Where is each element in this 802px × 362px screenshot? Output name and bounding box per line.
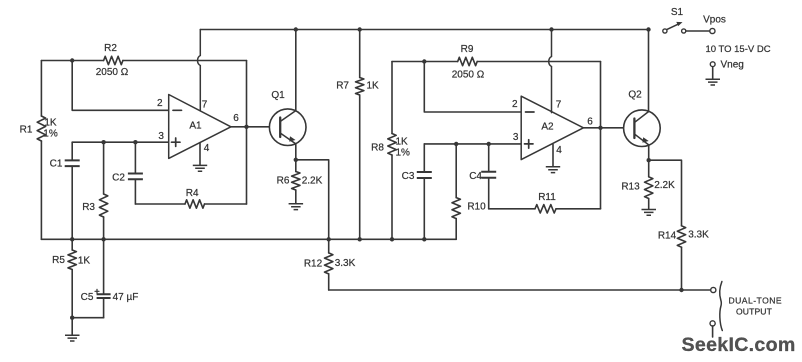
pin 6 label A1	[233, 113, 239, 124]
wire Q2 emitter to R14	[649, 160, 682, 226]
pin 6 label A2	[587, 117, 593, 128]
label R11	[538, 192, 556, 203]
pin 3 label A2	[513, 132, 519, 143]
wire Q1 collector to rail	[295, 30, 297, 111]
label R14 value 3.3K	[688, 230, 709, 241]
label R9	[461, 44, 474, 55]
label Q2	[628, 90, 642, 101]
transistor Q2	[624, 110, 661, 147]
label OUTPUT	[736, 307, 773, 317]
svg-text:R8: R8	[371, 143, 384, 154]
svg-text:R9: R9	[461, 44, 474, 55]
node output bus/R14	[679, 288, 683, 292]
node junction pin3/R10	[454, 142, 458, 146]
capacitor C4	[481, 144, 496, 209]
svg-text:4: 4	[556, 145, 562, 156]
node rail/R7	[358, 27, 362, 31]
svg-text:C3: C3	[402, 171, 415, 182]
wire A1 pin7 to rail with hop over R2 wire	[198, 30, 201, 111]
svg-text:SeekIC.com: SeekIC.com	[682, 334, 796, 356]
svg-text:A2: A2	[541, 121, 554, 132]
label R6 value 2.2K	[302, 176, 323, 187]
svg-text:4: 4	[204, 143, 210, 154]
wire Q2 collector to rail	[648, 30, 650, 112]
node common/C3	[422, 237, 426, 241]
label R2	[104, 43, 117, 54]
label A1	[189, 120, 202, 131]
op-amp A1 plus input sign	[172, 138, 181, 146]
label R10	[467, 201, 486, 212]
label R12 value 3.3K	[335, 258, 356, 269]
node Vneg terminal	[710, 62, 715, 67]
op-amp A1 minus input sign	[173, 109, 182, 111]
resistor R4 feedback	[135, 200, 246, 208]
label Q1	[271, 90, 285, 101]
wire A2 output to Q2 base	[583, 127, 623, 129]
resistor R10	[452, 144, 460, 239]
label R3	[82, 202, 95, 213]
brace dual-tone output	[720, 282, 723, 331]
svg-text:3.3K: 3.3K	[335, 258, 356, 269]
pin 3 label A1	[158, 131, 164, 142]
node rail/Q2 collector and S1 feed	[646, 27, 650, 31]
capacitor C1	[65, 142, 80, 239]
svg-text:C5: C5	[81, 292, 94, 303]
op-amp A1 triangle	[169, 95, 231, 159]
svg-text:R13: R13	[621, 182, 640, 193]
switch S1	[663, 22, 686, 33]
svg-text:Vpos: Vpos	[703, 14, 726, 25]
label R1 tolerance 1%	[43, 129, 58, 140]
resistor R9 (2050 ohm) with feed wire	[392, 57, 601, 65]
label R5	[52, 255, 65, 266]
wire pin2 branch to op-amp A1	[72, 61, 169, 111]
label supply 10 TO 15-V DC	[705, 44, 770, 55]
node A2 output junction	[598, 126, 602, 130]
node Vpos terminal	[710, 28, 715, 33]
svg-text:R4: R4	[186, 188, 199, 199]
node junction pin3/C2	[133, 140, 137, 144]
resistor R7 (1K)	[356, 30, 364, 240]
op-amp A2 plus input sign	[525, 140, 534, 148]
node rail/Q1 collector	[294, 27, 298, 31]
wire Q1 emitter to R12 top	[296, 160, 329, 240]
pin 4 label A2	[556, 145, 562, 156]
ground Vneg	[706, 79, 721, 85]
wire Q2 emitter lead	[648, 145, 650, 160]
resistor R12 (3.3K)	[325, 239, 333, 290]
svg-text:1K: 1K	[44, 117, 57, 128]
label C2	[112, 172, 125, 183]
svg-text:R1: R1	[20, 124, 33, 135]
svg-text:R3: R3	[82, 202, 95, 213]
svg-text:2050 Ω: 2050 Ω	[452, 70, 485, 81]
svg-text:6: 6	[587, 117, 593, 128]
label Vpos	[703, 14, 726, 25]
label R5 value 1K	[78, 256, 91, 267]
svg-text:R14: R14	[658, 231, 677, 242]
label R7 value 1K	[367, 81, 380, 92]
ground R13	[642, 210, 657, 216]
label R9 value 2050 ohm	[452, 70, 485, 81]
node output terminal lower	[710, 321, 715, 326]
wire top supply rail	[200, 29, 648, 31]
svg-text:1%: 1%	[396, 147, 411, 158]
capacitor C5 (47 uF polarized)	[95, 289, 111, 317]
label C5 value 47 uF	[113, 292, 139, 303]
label C3	[402, 171, 415, 182]
resistor R8 (1K 1%) right-stage rail	[388, 62, 396, 240]
svg-text:1K: 1K	[367, 81, 380, 92]
node common/C1-R5	[70, 237, 74, 241]
svg-text:1%: 1%	[43, 129, 58, 140]
svg-text:A1: A1	[189, 120, 202, 131]
pin 7 label A1	[202, 99, 208, 110]
svg-text:1K: 1K	[396, 136, 409, 147]
ground A2 pin4	[546, 167, 560, 173]
label Vneg	[721, 60, 744, 71]
node junction R2/pin2 branch	[70, 58, 74, 62]
svg-text:3.3K: 3.3K	[688, 230, 709, 241]
resistor R6 (2.2K)	[292, 160, 300, 203]
svg-text:R2: R2	[104, 43, 117, 54]
svg-text:7: 7	[202, 99, 208, 110]
transistor Q1	[269, 109, 306, 146]
svg-text:1K: 1K	[78, 256, 91, 267]
svg-text:C1: C1	[50, 158, 63, 169]
svg-text:Vneg: Vneg	[721, 60, 744, 71]
wire A1 output column	[246, 61, 248, 205]
wire common bus	[41, 238, 456, 240]
label R14	[658, 231, 677, 242]
svg-text:R12: R12	[304, 258, 323, 269]
label C4	[469, 171, 482, 182]
svg-text:DUAL-TONE: DUAL-TONE	[729, 296, 783, 306]
node ground junction bottom-left	[70, 316, 74, 320]
wire A2 pin7 to rail with hop over R9 wire	[549, 30, 552, 113]
label R8 value 1K	[396, 136, 409, 147]
wire pin3 input wire of A1	[72, 141, 169, 143]
svg-text:10 TO 15-V DC: 10 TO 15-V DC	[705, 44, 770, 55]
label A2	[541, 121, 554, 132]
label R2 value 2050 ohm	[96, 67, 129, 78]
label R8	[371, 143, 384, 154]
pin 2 label A2	[512, 99, 518, 110]
svg-text:OUTPUT: OUTPUT	[736, 307, 773, 317]
svg-text:2: 2	[157, 98, 163, 109]
wire A2 pin4 to ground	[552, 144, 554, 166]
label R12	[304, 258, 323, 269]
watermark SeekIC.com	[682, 334, 796, 356]
svg-text:S1: S1	[671, 7, 684, 18]
svg-text:3: 3	[158, 131, 164, 142]
node common/R8	[390, 237, 394, 241]
label C5	[81, 292, 94, 303]
wire S1 to Vpos terminal	[686, 30, 710, 32]
wire output bus	[329, 289, 711, 291]
label R13	[621, 182, 640, 193]
pin 2 label A1	[157, 98, 163, 109]
wire pin3 input wire of A2	[424, 143, 521, 145]
resistor R3	[99, 142, 107, 293]
svg-text:R6: R6	[277, 176, 290, 187]
svg-text:2: 2	[512, 99, 518, 110]
wire pin2 branch to op-amp A2	[424, 62, 521, 113]
node output terminal upper	[711, 287, 716, 292]
label R7	[336, 81, 349, 92]
node rail/A2 pin7	[549, 27, 553, 31]
pin 7 label A2	[556, 99, 562, 110]
label R1	[20, 124, 33, 135]
ground R6	[289, 204, 304, 210]
node Q1 emitter junction	[294, 158, 298, 162]
node A1 output junction	[244, 125, 248, 129]
svg-text:7: 7	[556, 99, 562, 110]
wire lower terminal stub	[712, 326, 714, 337]
label R13 value 2.2K	[654, 180, 675, 191]
label R4	[186, 188, 199, 199]
svg-text:R5: R5	[52, 255, 65, 266]
wire A1 pin4 to ground	[199, 143, 201, 165]
ground A1 pin4	[193, 165, 207, 171]
svg-text:2.2K: 2.2K	[654, 180, 675, 191]
svg-text:47 µF: 47 µF	[113, 292, 139, 303]
resistor R11 feedback	[489, 205, 601, 213]
svg-text:R10: R10	[467, 201, 486, 212]
svg-text:Q1: Q1	[271, 90, 285, 101]
label R8 tolerance 1%	[396, 147, 411, 158]
svg-text:2.2K: 2.2K	[302, 176, 323, 187]
node common/R7	[358, 237, 362, 241]
label R6	[277, 176, 290, 187]
svg-text:3: 3	[513, 132, 519, 143]
node left rail / resistor R1 (1K 1%)	[37, 61, 45, 240]
capacitor C3	[417, 144, 432, 239]
op-amp A2 triangle	[521, 96, 583, 159]
svg-text:6: 6	[233, 113, 239, 124]
wire C5 bottom to R5 bottom	[72, 317, 103, 319]
resistor R14 (3.3K)	[677, 226, 685, 290]
resistor R5 (1K)	[68, 239, 76, 317]
node common/R3-C5	[101, 237, 105, 241]
label C1	[50, 158, 63, 169]
svg-text:C4: C4	[469, 171, 482, 182]
node junction pin3/C4	[487, 142, 491, 146]
wire A1 output to Q1 base	[231, 126, 270, 128]
resistor R13 (2.2K)	[645, 160, 653, 209]
resistor R2 (2050 ohm) with feed wire	[41, 56, 246, 64]
svg-text:Q2: Q2	[628, 90, 642, 101]
capacitor C2	[128, 142, 143, 204]
wire A2 output column	[600, 62, 602, 209]
wire to bottom-left ground	[71, 318, 73, 335]
node common/R12	[327, 237, 331, 241]
svg-text:C2: C2	[112, 172, 125, 183]
wire Vneg to ground	[712, 67, 714, 79]
node junction R9/pin2 branch	[422, 59, 426, 63]
wire Q1 emitter lead	[295, 144, 297, 160]
pin 4 label A1	[204, 143, 210, 154]
svg-text:R7: R7	[336, 81, 349, 92]
label R1 value 1K	[44, 117, 57, 128]
label S1	[671, 7, 684, 18]
svg-text:R11: R11	[538, 192, 556, 203]
svg-text:2050 Ω: 2050 Ω	[96, 67, 129, 78]
label DUAL-TONE	[729, 296, 783, 306]
op-amp A2 minus input sign	[526, 111, 535, 113]
node Q2 emitter junction	[647, 158, 651, 162]
node junction pin3/R3	[101, 140, 105, 144]
ground bottom-left	[65, 335, 80, 341]
